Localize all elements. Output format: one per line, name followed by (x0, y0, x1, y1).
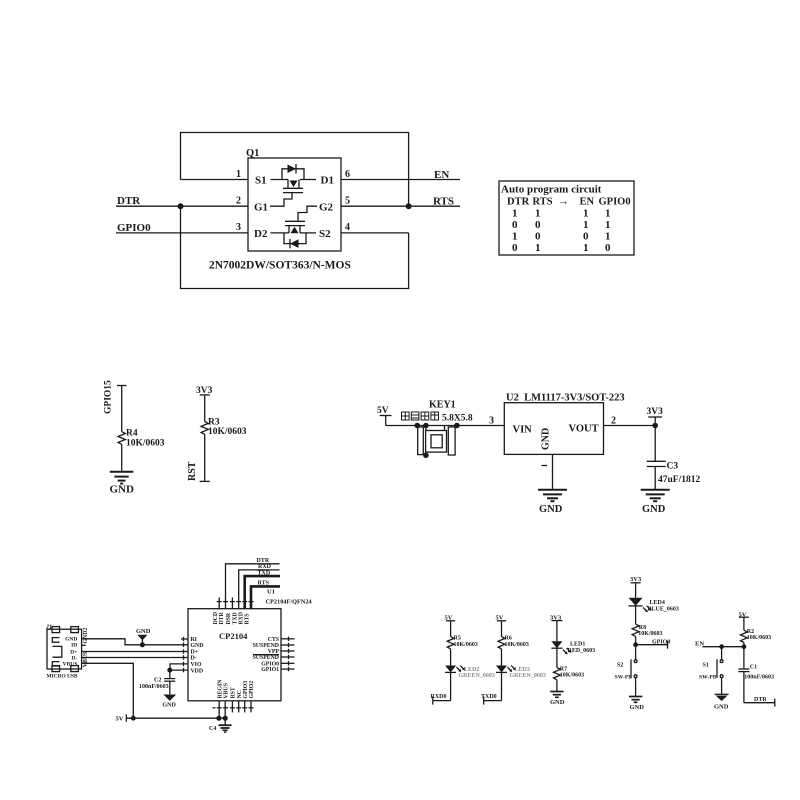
svg-text:DTR: DTR (754, 697, 767, 703)
svg-text:GPIO0: GPIO0 (599, 197, 631, 208)
svg-text:S2: S2 (617, 662, 623, 668)
svg-text:0: 0 (512, 219, 518, 231)
svg-text:2N7002DW/SOT363/N-MOS: 2N7002DW/SOT363/N-MOS (209, 260, 351, 272)
wire pin 5 to RTS (341, 205, 460, 207)
svg-text:100nF/0603: 100nF/0603 (744, 674, 774, 680)
svg-text:C4: C4 (209, 726, 216, 732)
switch KEY1 (402, 400, 473, 459)
svg-text:Auto program circuit: Auto program circuit (501, 184, 602, 196)
svg-text:1: 1 (583, 242, 589, 254)
svg-text:GND2: GND2 (83, 628, 89, 644)
table Auto program circuit box (499, 181, 634, 255)
svg-text:D-: D- (191, 656, 197, 662)
LED LED2 (450, 649, 452, 666)
ground col4 (635, 684, 637, 697)
svg-text:5V: 5V (116, 716, 124, 723)
IC U2 LM1117 body (504, 403, 603, 455)
svg-text:GPIO1: GPIO1 (261, 667, 279, 673)
svg-text:DTR: DTR (507, 197, 530, 208)
svg-text:LED4: LED4 (650, 600, 665, 606)
svg-text:GPIO3: GPIO3 (243, 681, 249, 699)
svg-text:100nF/0603: 100nF/0603 (139, 684, 169, 690)
resistor R6 (501, 621, 503, 637)
svg-text:10K/0603: 10K/0603 (638, 631, 662, 637)
ground col3 (550, 692, 563, 698)
resistor R4 (118, 432, 125, 445)
svg-text:3V3: 3V3 (647, 407, 664, 417)
svg-text:VIN: VIN (513, 425, 533, 436)
top pin stubs with ticks (217, 598, 254, 609)
svg-text:0: 0 (583, 231, 589, 243)
svg-text:CP2104: CP2104 (219, 631, 248, 641)
svg-text:10K/0603: 10K/0603 (454, 642, 478, 648)
wire R4 top (117, 385, 127, 387)
svg-text:DTR: DTR (257, 558, 270, 564)
resistor R2 (743, 617, 745, 630)
LED LED4 (635, 583, 637, 598)
wire RTS line (251, 586, 280, 608)
wire R3 top (204, 395, 206, 422)
svg-text:GND: GND (550, 699, 565, 706)
svg-text:1: 1 (605, 219, 611, 231)
switch S2 (615, 645, 637, 684)
switch S1 (699, 647, 723, 684)
svg-text:G1: G1 (254, 202, 268, 214)
wire DTR to pin 2 (116, 205, 248, 207)
wire R4 bottom (121, 444, 123, 471)
svg-text:R3: R3 (208, 418, 220, 428)
svg-text:0: 0 (535, 231, 541, 243)
svg-text:3V3: 3V3 (630, 576, 642, 583)
svg-text:VBUS: VBUS (83, 652, 89, 667)
capacitor C4 with ground (219, 718, 232, 732)
svg-text:DTR: DTR (117, 195, 141, 207)
svg-text:3: 3 (236, 222, 241, 233)
svg-text:CTS: CTS (268, 637, 279, 643)
wire USB GND to chip (86, 639, 189, 645)
svg-text:R5: R5 (454, 636, 461, 642)
svg-text:1: 1 (605, 208, 611, 220)
svg-text:CP2104F/QFN24: CP2104F/QFN24 (266, 598, 313, 605)
svg-text:RTS: RTS (433, 196, 454, 208)
svg-text:GND: GND (191, 643, 204, 649)
svg-text:GND: GND (714, 703, 729, 710)
svg-text:1: 1 (535, 208, 541, 220)
right pin stubs with ticks (281, 637, 295, 672)
svg-text:GND: GND (642, 504, 666, 515)
svg-text:RED_0603: RED_0603 (568, 648, 596, 654)
svg-text:S1: S1 (255, 175, 267, 187)
svg-text:SUSPEND: SUSPEND (253, 655, 279, 661)
svg-text:Q1: Q1 (246, 148, 259, 159)
svg-text:1: 1 (583, 208, 589, 220)
svg-text:ID: ID (71, 643, 77, 649)
svg-text:TXD0: TXD0 (481, 694, 497, 700)
transistor Q1A upper MOSFET (270, 164, 316, 206)
svg-text:VBUS: VBUS (63, 661, 78, 667)
top pin names (rotated) (213, 611, 251, 624)
svg-text:10K/0603: 10K/0603 (126, 439, 165, 449)
ground C2 (163, 695, 177, 709)
svg-text:GND: GND (630, 704, 645, 711)
ground R4 (110, 472, 134, 484)
svg-text:DTR: DTR (219, 611, 225, 624)
svg-text:GND: GND (110, 484, 135, 496)
resistor R8 (635, 606, 637, 624)
left pin names (191, 637, 204, 674)
svg-text:TXD: TXD (258, 570, 271, 576)
wire S1 to RTS top loop (181, 133, 409, 207)
svg-text:VDD: VDD (191, 668, 204, 674)
wire 5V rail to REGIN (126, 717, 225, 719)
capacitor C3 (654, 426, 656, 462)
svg-text:DCD: DCD (213, 612, 219, 625)
svg-text:→: → (558, 196, 569, 208)
svg-text:2: 2 (236, 196, 241, 207)
ground symbol near USB (136, 628, 151, 645)
svg-text:0: 0 (605, 242, 611, 254)
wire pin 6 to EN (341, 179, 460, 181)
svg-text:BLUE_0603: BLUE_0603 (648, 607, 679, 613)
wire VBUS down to 5V rail (86, 663, 134, 718)
wire VOUT to 3V3 (604, 425, 656, 427)
net RXD0 (450, 672, 452, 700)
svg-text:GREEN_0603: GREEN_0603 (459, 673, 495, 679)
wire USB D+ to chip (86, 651, 189, 653)
svg-text:6: 6 (345, 169, 350, 180)
svg-text:10K/0603: 10K/0603 (747, 635, 771, 641)
svg-text:GPIO0: GPIO0 (652, 640, 670, 646)
svg-text:EN: EN (434, 169, 449, 181)
svg-text:KEY1: KEY1 (429, 400, 456, 411)
node DTR junction (178, 203, 184, 209)
wire DTR line (226, 564, 280, 609)
node RTS junction (406, 203, 412, 209)
svg-text:R4: R4 (126, 429, 138, 439)
svg-text:VOUT: VOUT (569, 424, 599, 435)
svg-text:47uF/1812: 47uF/1812 (658, 475, 700, 485)
resistor R7 (556, 648, 558, 667)
svg-text:4: 4 (345, 222, 350, 233)
svg-text:GND: GND (541, 428, 552, 450)
svg-text:VBUS: VBUS (224, 683, 230, 698)
LED LED1 (556, 621, 558, 642)
svg-text:C3: C3 (667, 462, 679, 472)
svg-text:GREEN_0603: GREEN_0603 (510, 673, 546, 679)
wire U2 GND pin (552, 454, 554, 489)
transistor Q1B lower MOSFET (271, 206, 318, 248)
resistor R5 (450, 621, 452, 637)
LED LED3 (501, 649, 503, 666)
svg-text:RXD: RXD (238, 612, 244, 625)
left pin stubs with ticks (181, 637, 188, 673)
svg-text:VIO: VIO (191, 662, 202, 668)
svg-text:GND: GND (65, 636, 77, 642)
svg-text:GPIO15: GPIO15 (104, 380, 114, 414)
svg-text:5: 5 (345, 196, 350, 207)
bottom pin names (rotated) (217, 679, 255, 699)
svg-text:REGIN: REGIN (217, 679, 223, 699)
wire TXD line (245, 576, 280, 609)
svg-text:3: 3 (489, 416, 494, 427)
svg-text:D+: D+ (70, 649, 77, 655)
wire DTR to S2 bottom loop (181, 206, 409, 288)
svg-text:C1: C1 (750, 664, 757, 670)
wire pin 1 S1 (181, 179, 249, 181)
ground col5 (721, 684, 723, 695)
wire VIO VDD (170, 664, 188, 670)
svg-text:1: 1 (512, 231, 518, 243)
svg-text:D2: D2 (254, 228, 268, 240)
svg-text:RXD: RXD (258, 564, 272, 570)
svg-text:1: 1 (512, 208, 518, 220)
svg-text:1: 1 (236, 169, 241, 180)
IC U1 CP2104 body (188, 609, 281, 701)
node GND junction (140, 642, 145, 647)
svg-text:EN: EN (580, 197, 595, 208)
wire RXD line (239, 570, 280, 609)
svg-text:U2 LM1117-3V3/SOT-223: U2 LM1117-3V3/SOT-223 (506, 393, 625, 404)
net DTR stub (743, 672, 745, 703)
wire USB D- to chip (86, 657, 189, 659)
svg-text:D1: D1 (321, 175, 334, 187)
svg-text:5.8X5.8: 5.8X5.8 (442, 414, 473, 424)
right pin names (253, 637, 280, 673)
svg-text:GND: GND (163, 703, 177, 709)
svg-text:R6: R6 (505, 636, 512, 642)
svg-text:LED1: LED1 (570, 642, 585, 648)
svg-text:C2: C2 (154, 678, 161, 684)
ground C3 (641, 490, 670, 501)
svg-text:5V: 5V (377, 406, 389, 416)
svg-text:10K/0603: 10K/0603 (505, 642, 529, 648)
capacitor C2 (139, 670, 175, 694)
svg-text:0: 0 (512, 242, 518, 254)
svg-text:GPIO0: GPIO0 (117, 222, 151, 234)
net GPIO0 stub (635, 636, 637, 644)
resistor R3 (201, 422, 208, 435)
svg-text:GND: GND (539, 504, 563, 515)
svg-text:1: 1 (583, 219, 589, 231)
bottom pin stubs with ticks (213, 701, 254, 718)
svg-text:MICRO USB: MICRO USB (47, 674, 78, 680)
capacitor C1 (743, 647, 745, 669)
svg-text:RXD0: RXD0 (431, 694, 447, 700)
svg-text:RTS: RTS (258, 581, 270, 587)
svg-text:S2: S2 (319, 228, 331, 240)
svg-text:SW-PB: SW-PB (699, 674, 717, 680)
svg-text:S1: S1 (703, 662, 709, 668)
svg-text:U1: U1 (267, 589, 275, 596)
svg-text:RST: RST (231, 687, 237, 698)
connector J1 MICRO USB (45, 625, 89, 680)
svg-text:RTS: RTS (533, 197, 553, 208)
svg-text:1: 1 (605, 231, 611, 243)
ground U2 (538, 490, 567, 501)
wire 5V to VIN (386, 425, 505, 427)
net TXD0 (501, 672, 503, 700)
svg-text:GPIO2: GPIO2 (249, 681, 255, 699)
svg-text:1: 1 (535, 242, 541, 254)
svg-text:RTS: RTS (245, 613, 251, 624)
IC Q1 body (248, 158, 341, 251)
wire pin 4 (341, 232, 409, 234)
svg-text:G2: G2 (319, 202, 334, 214)
wire R3 bottom to RST (204, 434, 206, 481)
svg-text:GND: GND (136, 628, 151, 635)
svg-text:0: 0 (535, 219, 541, 231)
svg-text:RST: RST (187, 461, 198, 481)
node 3V3 junction (652, 423, 658, 429)
svg-text:10K/0603: 10K/0603 (208, 427, 247, 437)
svg-text:DSR: DSR (226, 612, 232, 624)
svg-text:10K/0603: 10K/0603 (560, 672, 584, 678)
svg-text:SW-PB: SW-PB (615, 674, 633, 680)
wire GPIO0 to pin 3 (116, 232, 248, 234)
